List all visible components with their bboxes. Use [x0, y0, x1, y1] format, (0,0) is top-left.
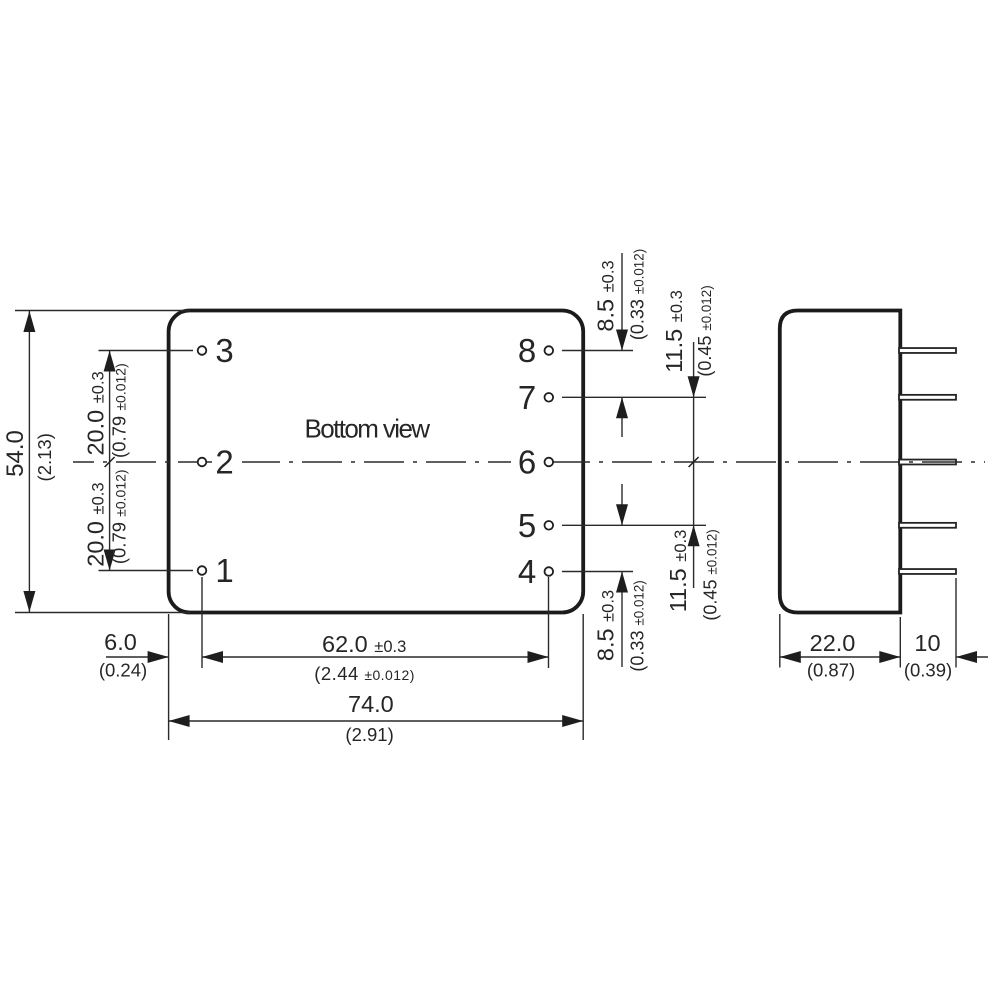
svg-text:22.0: 22.0 — [810, 630, 856, 656]
svg-text:(0.79 ±0.012): (0.79 ±0.012) — [109, 469, 130, 564]
svg-text:74.0: 74.0 — [348, 691, 394, 717]
svg-text:1: 1 — [215, 552, 233, 589]
svg-text:6: 6 — [518, 444, 536, 481]
svg-text:(2.91): (2.91) — [345, 724, 393, 745]
svg-text:4: 4 — [518, 553, 536, 590]
svg-text:(0.79 ±0.012): (0.79 ±0.012) — [109, 363, 130, 458]
svg-text:5: 5 — [518, 507, 536, 544]
svg-text:2: 2 — [215, 444, 233, 481]
svg-text:3: 3 — [215, 332, 233, 369]
svg-text:(0.87): (0.87) — [807, 660, 855, 681]
svg-text:(2.13): (2.13) — [34, 433, 55, 481]
svg-text:(0.24): (0.24) — [99, 660, 147, 681]
svg-text:10: 10 — [914, 630, 940, 656]
svg-text:7: 7 — [518, 379, 536, 416]
svg-text:(0.39): (0.39) — [904, 660, 952, 681]
svg-text:54.0: 54.0 — [2, 430, 29, 477]
svg-text:Bottom view: Bottom view — [304, 413, 430, 443]
svg-text:(2.44 ±0.012): (2.44 ±0.012) — [314, 663, 415, 684]
svg-text:6.0: 6.0 — [104, 629, 137, 655]
svg-text:8: 8 — [518, 332, 536, 369]
